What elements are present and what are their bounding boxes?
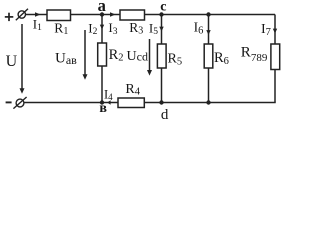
svg-text:в: в xyxy=(99,101,107,116)
voltage arrow U line xyxy=(21,24,23,90)
svg-text:c: c xyxy=(160,0,166,15)
node c junction dot xyxy=(159,12,163,16)
voltage arrow Ucd line xyxy=(149,39,151,72)
svg-text:a: a xyxy=(98,0,106,15)
voltage arrow U head xyxy=(20,88,25,94)
resistor R1 xyxy=(47,10,71,21)
wire bottom bus xyxy=(24,102,276,104)
voltage arrow Uab head xyxy=(83,74,88,80)
resistor R4 xyxy=(118,98,144,108)
svg-text:d: d xyxy=(161,107,169,123)
terminal plus xyxy=(16,9,28,20)
current arrow I6 xyxy=(206,30,210,35)
current arrow I3 xyxy=(110,12,116,17)
junction dot bottom R6 xyxy=(206,100,210,104)
current arrow I2 xyxy=(100,25,104,30)
junction dot top R6 xyxy=(206,12,210,16)
current arrow I4 xyxy=(107,100,110,104)
wire top bus a-c xyxy=(26,14,276,16)
label minus sign xyxy=(6,101,12,103)
wire branch a to v through R2 xyxy=(101,15,103,103)
svg-text:U: U xyxy=(6,53,18,70)
wire right side down xyxy=(274,15,276,103)
resistor R3 xyxy=(120,10,145,20)
wire branch c to d through R5 xyxy=(161,15,163,103)
label plus sign xyxy=(5,13,14,21)
node a junction dot xyxy=(100,12,104,16)
svg-text:Ucd: Ucd xyxy=(127,49,148,64)
resistor R789 xyxy=(271,44,280,70)
wire branch through R6 xyxy=(208,15,210,103)
current arrow I1 xyxy=(35,12,41,17)
resistor R5 xyxy=(157,44,166,68)
resistor R6 xyxy=(204,44,213,68)
terminal minus xyxy=(13,97,26,109)
current arrow I5 xyxy=(159,27,163,32)
current arrow I7 xyxy=(273,29,277,34)
voltage arrow Uab line xyxy=(84,30,86,76)
node d junction dot xyxy=(159,100,163,104)
resistor R2 xyxy=(98,43,107,66)
svg-text:Uав: Uав xyxy=(55,51,77,68)
node v junction dot xyxy=(100,100,104,104)
voltage arrow Ucd head xyxy=(147,70,152,76)
